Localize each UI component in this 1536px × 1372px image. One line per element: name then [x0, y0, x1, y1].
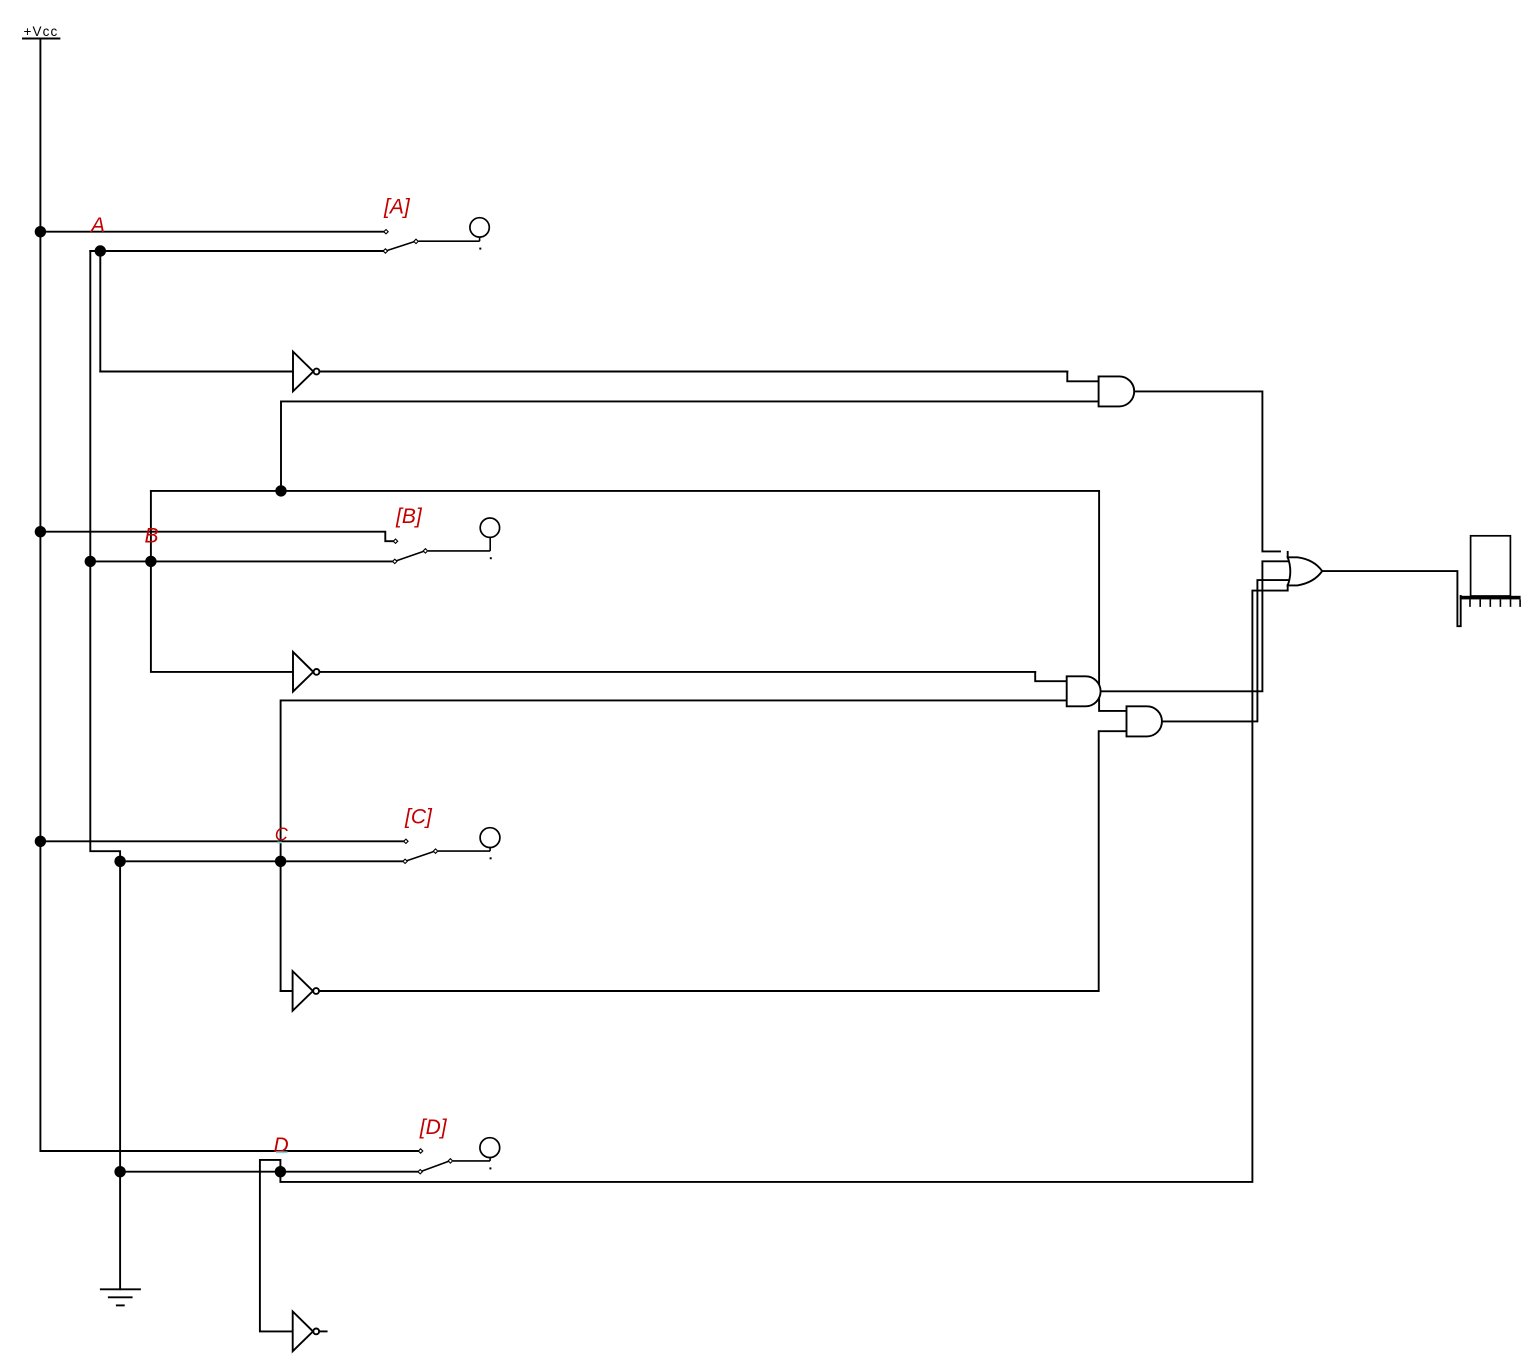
- svg-text:A: A: [89, 214, 105, 237]
- svg-text:[C]: [C]: [404, 806, 433, 829]
- svg-text:+Vcc: +Vcc: [24, 24, 59, 39]
- svg-text:D: D: [274, 1134, 289, 1157]
- svg-text:[D]: [D]: [419, 1116, 448, 1139]
- svg-text:[B]: [B]: [395, 505, 423, 528]
- svg-text:C: C: [275, 825, 289, 845]
- svg-text:[A]: [A]: [383, 196, 411, 219]
- svg-text:B: B: [145, 525, 159, 548]
